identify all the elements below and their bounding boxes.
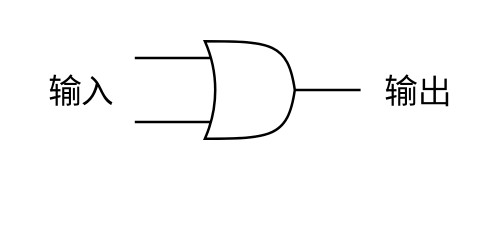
or-gate U1 xyxy=(205,41,295,138)
wire output xyxy=(295,89,360,92)
wire input top xyxy=(135,57,211,60)
wire input bottom xyxy=(135,121,211,124)
label output 输出 xyxy=(386,74,449,106)
label input 输入 xyxy=(50,74,113,105)
